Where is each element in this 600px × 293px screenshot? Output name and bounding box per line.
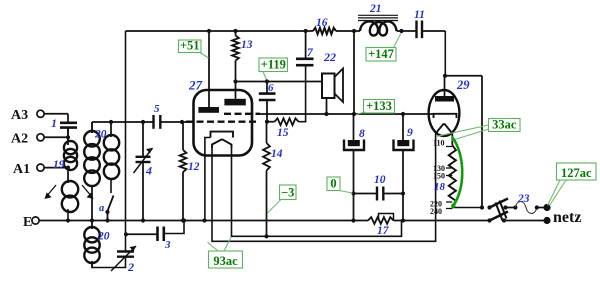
resistor R14 xyxy=(263,122,270,237)
label 18 xyxy=(434,181,446,193)
node grid2 junction xyxy=(265,120,269,124)
variable capacitor C4 xyxy=(134,122,153,221)
wire top rail right segments xyxy=(336,30,445,32)
voltage label +119 xyxy=(259,58,288,72)
wire plus133 bus xyxy=(258,113,434,115)
label A2 xyxy=(11,132,28,147)
node U29 top xyxy=(443,74,447,78)
node C4 bottom xyxy=(141,218,145,222)
voltage label 127ac xyxy=(557,163,597,180)
svg-text:4: 4 xyxy=(145,164,152,178)
capacitor C11 xyxy=(417,21,423,39)
wire cap1 to coil19 xyxy=(67,128,69,141)
svg-text:6: 6 xyxy=(268,82,274,94)
node cathode bottom xyxy=(202,218,206,222)
label 17 xyxy=(377,225,390,237)
wire heater bus upper xyxy=(232,148,402,236)
svg-text:17: 17 xyxy=(377,225,390,237)
pointer 93ac xyxy=(208,237,232,251)
resistor R17 xyxy=(368,214,394,224)
pointer 33ac xyxy=(437,125,489,141)
fuse 23 xyxy=(513,202,547,214)
label 20 lower xyxy=(97,231,110,243)
pointer +147 xyxy=(394,34,401,48)
voltage label +133 xyxy=(364,99,395,113)
node anode2 rail xyxy=(233,29,237,33)
label 2 xyxy=(127,260,134,274)
svg-text:+119: +119 xyxy=(261,58,286,72)
svg-text:E: E xyxy=(23,215,32,230)
wire cap5 to grid xyxy=(160,121,193,123)
node A2 junction xyxy=(66,135,70,139)
node C8 mid xyxy=(351,191,355,195)
inductor L19 xyxy=(64,128,77,170)
svg-text:27: 27 xyxy=(188,78,203,93)
svg-text:8: 8 xyxy=(359,128,365,140)
voltage label 33ac xyxy=(489,118,521,132)
svg-text:22: 22 xyxy=(323,50,336,64)
svg-text:12: 12 xyxy=(188,161,200,173)
capacitor C6 xyxy=(259,82,276,122)
resistor R15 xyxy=(267,67,306,126)
wire grid tap y122 xyxy=(92,122,153,133)
label 27 xyxy=(188,78,203,93)
wire heater bus lower xyxy=(212,134,436,242)
node L20 bottom xyxy=(90,218,94,222)
node rail L21 left xyxy=(352,29,356,33)
node C8 bottom xyxy=(351,218,355,222)
node anode1 rail xyxy=(207,29,211,33)
label E xyxy=(23,215,32,230)
node rail L21 right xyxy=(399,29,403,33)
inductor L19b coupling coil xyxy=(62,181,78,221)
label 8 xyxy=(359,128,365,140)
anode A2 of U27 xyxy=(224,82,245,106)
svg-text:15: 15 xyxy=(277,127,289,139)
tube U27 envelope xyxy=(194,90,253,156)
arrow coupling left xyxy=(45,185,57,199)
label 23 xyxy=(517,193,530,205)
heater U27 xyxy=(212,140,232,148)
capacitor C5 xyxy=(154,115,161,129)
green selector strap xyxy=(451,138,462,209)
label 15 xyxy=(277,127,289,139)
wire C11 to rectifier xyxy=(444,31,446,76)
voltage label +51 xyxy=(179,39,202,53)
tube U29 envelope xyxy=(429,90,460,136)
voltage label 93ac xyxy=(209,251,243,268)
terminal E xyxy=(32,217,39,224)
inductor L20 secondary xyxy=(104,122,119,179)
switch a xyxy=(105,178,113,221)
capacitor C8 xyxy=(344,114,364,221)
terminal netz lower xyxy=(543,217,550,224)
label netz xyxy=(553,209,581,226)
switch 23a upper xyxy=(487,199,515,210)
svg-text:110: 110 xyxy=(433,139,445,148)
label 5 xyxy=(154,103,160,115)
pointer -3 xyxy=(268,200,282,214)
pointer 0 xyxy=(339,191,353,194)
resistor R13 xyxy=(232,31,239,82)
label 29 xyxy=(456,78,470,92)
svg-text:A2: A2 xyxy=(11,132,28,147)
variable capacitor C2 xyxy=(111,246,136,271)
pointer +51 xyxy=(200,53,209,59)
svg-text:33ac: 33ac xyxy=(492,118,517,132)
svg-text:127ac: 127ac xyxy=(561,166,592,180)
label 10 xyxy=(374,174,386,186)
wire U29 to mains xyxy=(445,76,482,208)
tap label 110 xyxy=(433,139,445,148)
svg-text:11: 11 xyxy=(414,9,425,21)
label 21 xyxy=(369,3,382,15)
svg-text:+133: +133 xyxy=(366,99,392,113)
tap label 150 xyxy=(433,172,445,181)
pointer +119 xyxy=(263,72,267,81)
label 11 xyxy=(414,9,425,21)
svg-text:A3: A3 xyxy=(11,108,28,123)
svg-text:a: a xyxy=(99,203,104,214)
node mains feed xyxy=(480,205,484,209)
label 7 xyxy=(307,47,314,59)
wire tuning bottom xyxy=(92,257,126,268)
svg-text:14: 14 xyxy=(271,148,283,160)
grid 1 dashed xyxy=(224,113,260,115)
label 6 xyxy=(268,82,274,94)
label 3 xyxy=(164,239,171,251)
terminal A3 xyxy=(37,110,68,117)
label 22 xyxy=(323,50,336,64)
node C9 mid xyxy=(401,191,405,195)
wire A1 to coupler xyxy=(67,166,69,183)
capacitor C3 xyxy=(126,221,184,242)
filament U29 xyxy=(436,124,453,145)
node C9 bottom xyxy=(401,218,405,222)
svg-text:netz: netz xyxy=(553,209,581,226)
label 19 xyxy=(53,159,65,171)
grid 2 dashed xyxy=(186,121,256,123)
resistor R16 xyxy=(313,28,336,34)
node C9 rail xyxy=(401,112,405,116)
resistor R18 xyxy=(449,145,482,208)
terminal netz upper xyxy=(543,204,550,211)
inductor L21 xyxy=(358,15,398,35)
node C3 tap xyxy=(124,232,128,236)
svg-text:29: 29 xyxy=(456,78,470,92)
svg-text:18: 18 xyxy=(434,181,446,193)
voltage label -3 xyxy=(280,185,297,200)
cathode U27 xyxy=(205,132,233,221)
switch 23b lower xyxy=(487,212,547,223)
svg-text:20: 20 xyxy=(97,231,110,243)
anode of U29 xyxy=(435,76,454,102)
terminal A1 xyxy=(37,164,68,171)
tap label 240 xyxy=(430,207,442,216)
node grid junction xyxy=(180,120,184,124)
label 14 xyxy=(271,148,283,160)
node R14 bottom xyxy=(264,234,268,238)
label 1 xyxy=(51,116,57,130)
inductor L20 primary xyxy=(84,122,100,221)
svg-text:5: 5 xyxy=(154,103,160,115)
capacitor C9 xyxy=(394,114,414,221)
svg-text:10: 10 xyxy=(374,174,386,186)
anode A1 of U27 xyxy=(198,31,219,113)
label 12 xyxy=(188,161,200,173)
label A1 xyxy=(13,162,30,177)
node C6 top xyxy=(265,79,269,83)
pointer 127ac xyxy=(548,180,567,206)
svg-text:0: 0 xyxy=(330,177,336,191)
node A1 junction xyxy=(66,166,70,170)
node C7 rail xyxy=(304,29,308,33)
wire chassis bus right xyxy=(394,220,490,222)
node grid tap xyxy=(141,120,145,124)
label a xyxy=(99,203,104,214)
svg-text:+51: +51 xyxy=(180,39,200,53)
svg-text:1: 1 xyxy=(51,116,57,130)
label 20 upper xyxy=(94,129,107,141)
tap ticks R18 xyxy=(446,147,452,209)
terminal A2 xyxy=(37,134,68,141)
inductor L20b oscillator xyxy=(84,221,99,268)
capacitor C7 xyxy=(296,31,314,65)
speaker 22 xyxy=(322,69,343,115)
svg-text:2: 2 xyxy=(127,260,134,274)
label 4 xyxy=(145,164,152,178)
label 13 xyxy=(241,39,253,51)
label 9 xyxy=(407,127,413,139)
node speaker bus xyxy=(324,112,328,116)
wire anode feedback y81 xyxy=(236,81,323,83)
svg-text:93ac: 93ac xyxy=(213,254,238,268)
switch link xyxy=(496,201,507,221)
svg-text:21: 21 xyxy=(369,3,382,15)
svg-text:13: 13 xyxy=(241,39,253,51)
node plus119 xyxy=(233,79,237,83)
svg-text:9: 9 xyxy=(407,127,413,139)
voltage label 0 xyxy=(327,177,340,191)
svg-text:23: 23 xyxy=(517,193,530,205)
node switch bottom xyxy=(105,218,109,222)
svg-text:16: 16 xyxy=(316,17,328,29)
tap label 220 xyxy=(430,200,442,209)
wire chassis bus xyxy=(40,220,369,222)
label 16 xyxy=(316,17,328,29)
svg-text:+147: +147 xyxy=(368,47,394,61)
svg-text:−3: −3 xyxy=(281,186,294,200)
svg-text:240: 240 xyxy=(430,207,442,216)
svg-text:19: 19 xyxy=(53,159,65,171)
voltage label +147 xyxy=(366,47,396,61)
node screen rail xyxy=(352,112,356,116)
node secondary top xyxy=(109,120,113,124)
wire A3 down xyxy=(67,114,69,123)
node E-junction xyxy=(66,218,70,222)
wire top rail xyxy=(126,30,314,32)
resistor R12 xyxy=(180,122,187,221)
svg-text:3: 3 xyxy=(164,239,171,251)
svg-text:A1: A1 xyxy=(13,162,30,177)
cathode bar U29 xyxy=(434,114,457,118)
capacitor C1 xyxy=(60,123,77,128)
arrow coupling right xyxy=(82,185,94,199)
node R12 bottom xyxy=(181,218,185,222)
svg-text:150: 150 xyxy=(433,172,445,181)
wire left loop edge xyxy=(125,31,127,251)
pointer +133 xyxy=(356,112,365,115)
wire screen feed xyxy=(353,31,355,114)
label A3 xyxy=(11,108,28,123)
capacitor C10 xyxy=(354,187,404,201)
tap label 130 xyxy=(433,164,445,173)
node C3 top xyxy=(182,218,186,222)
